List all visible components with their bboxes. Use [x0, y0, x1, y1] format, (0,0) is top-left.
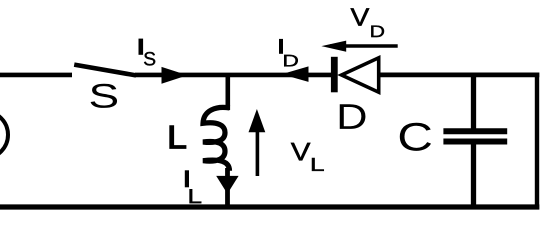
label I_L — [185, 170, 189, 187]
wire right vertical — [535, 73, 539, 210]
label I_D — [279, 39, 283, 54]
capacitor C bottom wire — [471, 145, 476, 208]
voltage source circle (partially cropped at left edge) — [0, 111, 8, 158]
node A: inductor branch top wire — [226, 74, 231, 110]
capacitor C top plate — [443, 128, 507, 134]
current arrow I_L (points down) — [216, 176, 238, 194]
voltage arrow V_L (points up) — [256, 130, 260, 176]
wire top-middle from switch to diode — [135, 73, 332, 78]
label V_D — [351, 8, 370, 25]
label L — [169, 125, 186, 149]
wire bottom rail — [0, 204, 539, 209]
inductor bottom stem wire — [225, 168, 230, 207]
label C — [400, 123, 431, 151]
label I_S — [139, 39, 144, 55]
label D — [340, 104, 366, 129]
label V_L — [291, 143, 310, 160]
diode D triangle (points left) — [342, 58, 379, 92]
inductor L coil — [203, 107, 230, 170]
switch S blade — [74, 65, 136, 76]
diode D cathode bar — [331, 57, 338, 93]
voltage arrow V_D (points left) — [330, 44, 398, 47]
current arrow I_D (points left) — [282, 66, 309, 82]
capacitor C top wire — [471, 74, 476, 129]
current arrow I_S — [162, 67, 188, 84]
wire top-left from source to switch — [0, 73, 72, 78]
wire top-right from diode to right edge — [380, 73, 539, 78]
capacitor C bottom plate — [443, 139, 507, 145]
label S — [91, 84, 117, 108]
